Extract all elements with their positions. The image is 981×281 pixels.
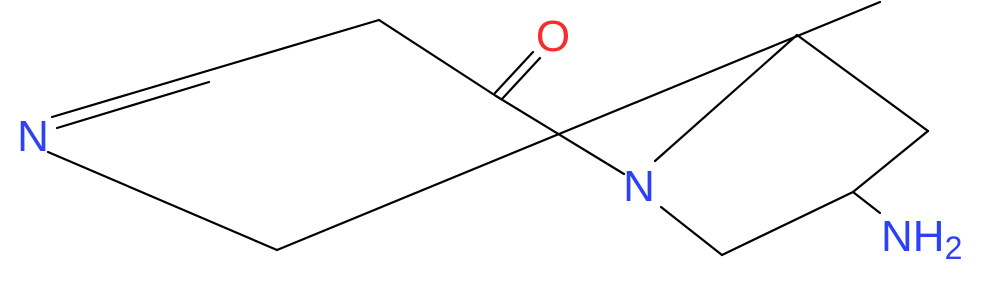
wire imine double bond N=C main line <box>52 20 379 117</box>
wire long diagonal bond trough to top edge <box>277 2 880 250</box>
wire bond carbonyl C to amide N <box>496 96 624 174</box>
svg-text:N: N <box>623 162 655 211</box>
wire ring bond C2-C3 <box>797 35 928 131</box>
wire ring bond C3-C4 <box>853 131 928 192</box>
svg-text:N: N <box>17 112 49 161</box>
wire imine double bond inner parallel <box>57 82 209 128</box>
wire carbonyl double bond C=O line 1 <box>495 52 533 93</box>
svg-text:NH2: NH2 <box>881 212 962 266</box>
wire bond peak to carbonyl C <box>379 20 496 96</box>
wire bond C4 to NH2 <box>853 192 880 213</box>
wire bond N down-right chain <box>48 152 277 250</box>
svg-text:O: O <box>536 12 570 61</box>
wire carbonyl double bond C=O line 2 <box>502 58 540 99</box>
wire ring bond N-C2 <box>655 35 797 161</box>
wire ring bond C5-N <box>661 207 722 255</box>
wire ring bond C4-C5 <box>722 192 853 255</box>
